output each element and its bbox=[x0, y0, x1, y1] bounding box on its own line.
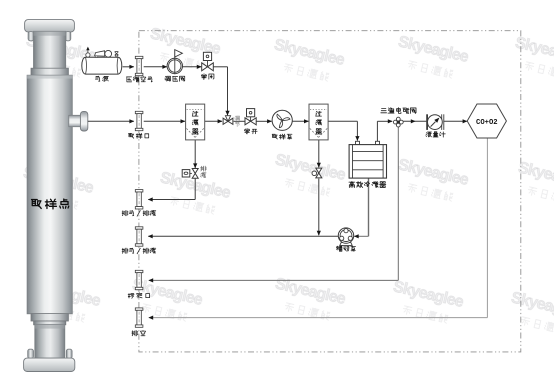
pipe: sample pump to filter2 bbox=[292, 119, 308, 123]
label: 压缩空气 bbox=[127, 77, 153, 82]
pipe: filter1 drain to solenoid drain valve bbox=[193, 140, 197, 168]
watermark layer bbox=[18, 25, 554, 337]
boundary: system dash-dot border bbox=[139, 31, 521, 352]
pipe: NC valve to downcomer bbox=[213, 67, 229, 116]
label: 蠕动泵 bbox=[337, 246, 356, 251]
label: 常开 bbox=[245, 128, 258, 134]
label: 气源 bbox=[95, 76, 108, 81]
port: 排气/排液 fitting 2 bbox=[135, 227, 143, 246]
pipe: filter2 drain valve to pump suction line bbox=[317, 179, 321, 236]
valve: needle/regulating valve 调节 bbox=[223, 116, 233, 125]
pipe: solenoid valve calibration return bbox=[148, 127, 398, 283]
valve: pressure regulator 调压阀 bbox=[167, 50, 182, 74]
label: 排气/排液 1 bbox=[122, 210, 156, 216]
port: 压缩空气 fitting bbox=[135, 56, 143, 75]
port: 排空 fitting bbox=[135, 308, 143, 327]
pipe: condenser drain downcomer bbox=[354, 178, 369, 238]
pipe: flow meter to analyzer bbox=[443, 119, 467, 123]
pipe: solenoid valve to flow meter bbox=[403, 119, 426, 123]
filter: 过滤器 2 bbox=[309, 104, 328, 140]
pipe: filter2 drain down bbox=[317, 140, 321, 168]
label: 取样点 bbox=[32, 199, 69, 209]
label: 取样泵 bbox=[272, 134, 292, 139]
pump: sampling pump 取样泵 bbox=[272, 110, 292, 130]
label: 调压阀 bbox=[165, 76, 185, 81]
pipe: drain valve to vent port 1 bbox=[148, 179, 195, 202]
label: 调节 (gray) bbox=[235, 116, 240, 127]
label: 高效冷凝器 bbox=[349, 181, 386, 187]
pipe: filter2 to condenser bbox=[328, 121, 359, 141]
label: 排气/排液 2 bbox=[122, 248, 156, 254]
label: 排空 bbox=[132, 331, 145, 336]
pipe: port to regulator bbox=[144, 65, 168, 69]
tank: air source 气源 bbox=[82, 47, 122, 75]
pipe: sample port to filter1 bbox=[144, 119, 186, 123]
vessel: sampling column body bbox=[24, 20, 75, 372]
pipe: NO valve to sample pump bbox=[256, 119, 272, 123]
meter: flow meter 流量计 bbox=[427, 114, 444, 130]
analyzer: CO+O2 hexagon bbox=[467, 104, 506, 138]
condenser: 高效冷凝器 bbox=[349, 141, 386, 178]
label: 排液 (gray, vertical) bbox=[201, 166, 207, 178]
pipe: regulator to NC valve bbox=[182, 65, 201, 69]
svg-text:CO+O2: CO+O2 bbox=[476, 119, 498, 127]
port: 取样口 fitting bbox=[135, 111, 143, 130]
label: 取样口 bbox=[129, 133, 149, 138]
port: 排气/排液 fitting 1 bbox=[135, 190, 143, 209]
label: 标定口 bbox=[128, 293, 149, 299]
pipe: filter1 to needle valve bbox=[205, 119, 223, 123]
pipe: air line tank to port bbox=[123, 65, 135, 69]
pipe: condenser to solenoid valve bbox=[377, 119, 392, 141]
label: 三通电磁阀 bbox=[381, 108, 416, 114]
pipe: needle valve to NO valve bbox=[234, 120, 245, 122]
label: 流量计 bbox=[426, 132, 445, 137]
filter: 过滤器 1 bbox=[186, 104, 205, 140]
pipe: nozzle to sample port bbox=[88, 119, 134, 123]
label: 常闭 bbox=[201, 74, 213, 80]
valve: normally-open solenoid 常开 bbox=[245, 109, 256, 125]
valve: filter2 drain with handwheel bbox=[312, 168, 322, 178]
valve: normally-closed solenoid 常闭 bbox=[202, 52, 214, 71]
valve: filter1 drain solenoid 排液 bbox=[182, 169, 198, 179]
port: 标定口 fitting bbox=[135, 270, 143, 289]
nozzle: sampling tap on column bbox=[69, 111, 88, 131]
pipe: analyzer vent return bbox=[148, 138, 487, 320]
pump: peristaltic pump 蠕动泵 bbox=[338, 228, 353, 245]
pipe: peristaltic pump discharge to vent port 2 bbox=[148, 234, 339, 238]
valve: three-way solenoid 三通电磁阀 bbox=[393, 117, 403, 127]
